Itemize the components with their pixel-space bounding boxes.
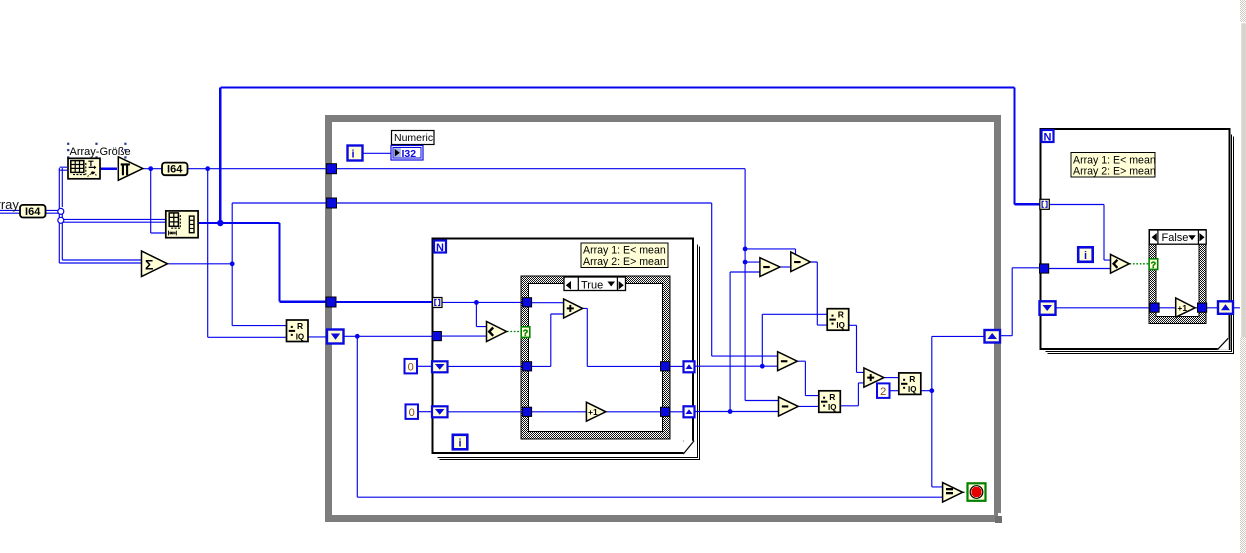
coercion tag I64 second [162,163,188,176]
shift register right loop [1040,301,1056,315]
wire add2 to quot3 [884,377,899,379]
while loop border [329,119,1003,524]
case selector label True [564,277,626,292]
indicator terminal I32 [391,146,423,161]
svg-text:rray: rray [0,197,19,212]
wire less-than dotted to case selector [507,331,521,333]
svg-text:Numeric: Numeric [394,132,433,144]
wire tunnel2 net inside loop [336,203,778,356]
case structure True frame [521,276,670,439]
for loop (inner) stacked frame [433,239,700,460]
tunnel loop left 1 [327,164,337,174]
case structure False frame [1149,230,1206,324]
wire loop out to right loop tunnel [1000,268,1041,336]
wire right less-than dotted [1130,263,1150,265]
iteration terminal while loop [348,146,363,161]
wire case increment line [531,411,661,413]
subtract node 1 [760,258,780,277]
case true tunnel right1 [661,362,670,371]
wire quot2 to add2 [840,383,864,406]
svg-text:i: i [1084,250,1087,262]
svg-text:i: i [351,149,354,161]
subtract node 2 [791,252,811,272]
wire tunnel3 thick to inner for loop [336,301,433,303]
shift register left [327,330,344,344]
label array comment right [1071,153,1156,178]
wire product output to I64 and loop tunnel [143,166,328,337]
svg-text:2: 2 [880,386,886,398]
case selector terminal inner [521,327,530,338]
coercion tag I64 input [20,205,46,218]
svg-text:Array 2: E> mean: Array 2: E> mean [1073,166,1156,178]
label array comment inner [581,243,668,268]
stop condition terminal [968,483,986,501]
case false tunnel left [1150,303,1159,312]
case selector terminal right [1149,259,1158,270]
case true tunnel left3 [522,407,531,416]
wire tunnel1 net inside loop [336,169,796,401]
iteration terminal inner [453,435,468,450]
case selector label False [1149,230,1206,244]
wire zero2 to shiftreg [417,411,432,413]
tunnel right loop mean [1040,264,1049,273]
constant zero 1 [405,359,418,374]
case true tunnel left1 [522,298,531,307]
wire right tunnel to less-than [1048,268,1111,270]
wire case true count to add bottom [531,314,564,366]
svg-text:N: N [1044,131,1052,143]
case true tunnel right2 [661,407,670,416]
tunnel inner mean [432,332,441,341]
scrollbar thumb [1240,22,1246,337]
svg-text:+1: +1 [588,407,598,417]
svg-text:0: 0 [409,407,415,419]
svg-text:N: N [436,242,444,254]
wire sub4 to quot2 [799,405,819,407]
svg-text:?: ? [1151,260,1157,270]
tunnel while loop right [985,330,1001,343]
wire i to indicator [363,152,391,154]
array size icon [68,158,100,179]
quotient remainder node left [287,320,309,342]
svg-text:I64: I64 [167,164,183,176]
case true tunnel left2 [522,362,531,371]
wire array-size to product [100,168,117,170]
label Array-Groesse [67,143,131,159]
svg-text:IQ: IQ [828,403,836,412]
shift register inner 2 [432,406,448,417]
wire shiftreg2 to case [448,411,524,413]
subtract node 3 [778,352,798,371]
tunnel right loop out [1218,301,1233,314]
tunnel loop left 3 [326,297,336,307]
svg-text:i: i [458,438,461,450]
wire quotient to shift register [308,336,328,338]
autoindex tunnel right loop [1040,199,1050,209]
wire junction circle B [58,217,64,223]
wire countB result net [695,272,779,414]
tunnel inner right 2 [684,406,695,417]
for loop (right) stacked frame [1041,129,1234,354]
svg-text:Array 2: E> mean: Array 2: E> mean [583,256,666,268]
svg-text:IQ: IQ [836,321,844,330]
wire right shift line [1056,307,1240,309]
svg-text:+1: +1 [1177,303,1187,313]
wire case out1 to right tunnel [669,365,683,367]
right loop N terminal [1042,130,1054,143]
svg-text:False: False [1162,232,1189,244]
wire inner autoindex element net [442,300,524,327]
svg-text:I64: I64 [25,206,41,218]
svg-text:R: R [829,392,835,402]
wire sum output net [168,203,328,326]
add node 2 [864,368,884,387]
wire reshape output thick net [199,87,1041,301]
svg-text:Array-Größe: Array-Größe [70,146,131,158]
wire case out2 to right tunnel [669,411,683,413]
less than node inner [487,322,507,342]
subtract node 4 [779,397,799,416]
wire equal dotted to stop [963,491,968,493]
reshape array icon [166,211,198,238]
constant zero 2 [406,404,419,419]
wire shiftreg1 to case [448,365,524,367]
wire shift register mean net [344,334,943,497]
wire countA result net [695,314,827,368]
svg-text:IQ: IQ [296,332,304,341]
svg-text:0: 0 [408,362,414,374]
less than node right [1111,254,1130,273]
iteration terminal right loop [1078,247,1093,262]
wire sub3 to quot2 [798,361,819,395]
svg-text:?: ? [523,328,529,338]
case false tunnel right [1198,303,1207,312]
svg-text:IQ: IQ [908,385,916,394]
svg-text:Σ: Σ [145,257,153,273]
label Numeric [392,131,435,145]
svg-text:Array 1: E< mean: Array 1: E< mean [1073,154,1156,166]
wire case true element to add [531,302,564,304]
for loop N terminal [434,241,446,254]
wire array input double line [0,167,165,263]
add node inner case [564,299,583,318]
wire junction circle A [58,208,64,214]
svg-text:R: R [297,321,303,331]
multiply array elements node [118,157,143,181]
sum array elements node [142,251,168,277]
increment node inner case [586,402,605,421]
wire quot1 to add2 [849,325,864,372]
quotient remainder node 3 [899,373,921,395]
quotient remainder node 2 [819,391,841,413]
equal node [943,483,963,502]
shift register inner 1 [432,361,448,372]
autoindex tunnel inner [433,298,443,308]
tunnel loop left 2 [327,198,337,208]
constant two [877,383,890,398]
svg-text:R: R [838,310,844,320]
wire sub2 to quot1 [811,262,828,325]
svg-text:Array 1: E< mean: Array 1: E< mean [583,245,666,257]
wire zero1 to shiftreg [417,365,432,367]
svg-text:True: True [581,280,603,292]
wire sub1 to sub2 [780,266,791,268]
increment node right case [1176,298,1195,317]
wire right autoindex net [1049,205,1111,261]
svg-text:I32: I32 [402,148,417,160]
wire inner mean to less-than [441,335,487,337]
tunnel inner right 1 [684,361,695,372]
wire const2 to quot3 [890,390,899,392]
wire quot3 output net [921,336,985,487]
scrollbar track [1240,0,1246,553]
quotient remainder node 1 [827,309,849,331]
svg-text:R: R [909,374,915,384]
wire add output to case tunnel [583,308,661,366]
